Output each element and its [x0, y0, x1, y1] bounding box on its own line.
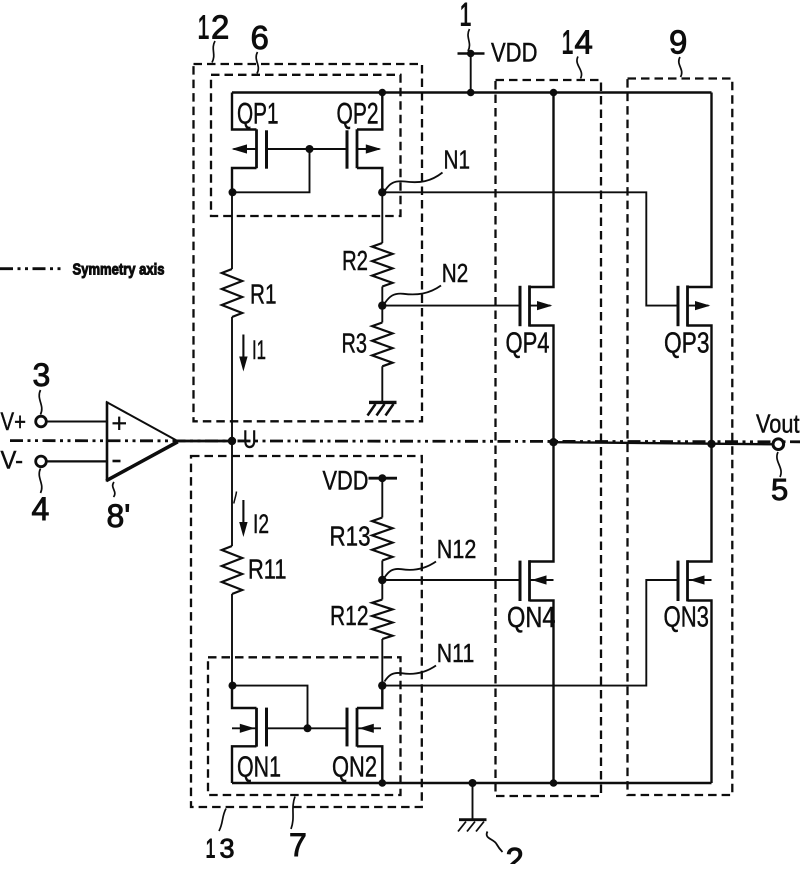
dashed block 9 outline: [628, 79, 733, 796]
svg-text:R2: R2: [342, 245, 368, 276]
svg-text:1: 1: [198, 9, 210, 46]
ground symbol (node 2): [458, 820, 487, 832]
stray scan tick: [234, 492, 237, 504]
label N12 leader: [385, 562, 437, 578]
svg-text:QN4: QN4: [507, 602, 556, 634]
svg-text:I1: I1: [252, 335, 266, 365]
wire V+ to op-amp: [47, 421, 107, 423]
VDD rail wire: [232, 91, 712, 94]
label N11: [437, 638, 475, 668]
svg-text:I2: I2: [253, 509, 269, 539]
svg-text:V+: V+: [1, 408, 27, 436]
dashed block 13 outline: [191, 456, 422, 807]
wire gate line QN1-QN2: [267, 727, 348, 729]
junction QP4/QN4 drains on axis: [549, 438, 557, 446]
wire output node to Vout: [554, 442, 778, 444]
label U: [243, 426, 257, 454]
transistor QN4 (NMOS): [507, 441, 556, 783]
svg-text:5: 5: [771, 472, 788, 507]
transistor QN2 (NMOS): [332, 686, 382, 784]
label 1: [460, 0, 472, 33]
label 3 leader: [39, 390, 42, 415]
svg-text:1: 1: [460, 0, 472, 33]
svg-text:8': 8': [107, 498, 131, 534]
label 4: [32, 491, 50, 527]
junction QN1 drain: [229, 682, 237, 690]
svg-text:3: 3: [33, 357, 51, 393]
wire R12 to N11: [381, 639, 383, 686]
label 6 leader: [256, 52, 258, 74]
label N1: [444, 144, 471, 174]
junction QN2 source on rail: [379, 779, 387, 787]
svg-text:VDD: VDD: [323, 465, 369, 495]
VDD label bottom: [323, 465, 369, 495]
svg-text:Symmetry axis: Symmetry axis: [73, 262, 165, 279]
resistor R1: [222, 269, 277, 317]
transistor QP2 (PMOS): [337, 93, 383, 193]
label 14: [562, 24, 593, 61]
label 7: [289, 827, 307, 863]
svg-text:V-: V-: [1, 446, 24, 474]
svg-text:9: 9: [669, 24, 687, 61]
wire N12 to R12: [381, 580, 383, 600]
svg-text:R1: R1: [250, 279, 277, 310]
node N2 junction: [378, 301, 386, 309]
label 8' leader: [113, 482, 115, 497]
node N1 junction: [378, 188, 386, 196]
svg-text:6: 6: [251, 19, 269, 56]
node N11 junction: [378, 681, 386, 689]
wire VDD to R13: [381, 478, 383, 517]
svg-text:QN3: QN3: [664, 602, 710, 634]
label 13: [206, 834, 235, 864]
label N11 leader: [385, 666, 437, 682]
junction ground tap on rail: [469, 779, 477, 787]
junction QP3/QN3 drains on axis: [707, 440, 715, 448]
svg-text:VDD: VDD: [491, 38, 538, 68]
VDD label top: [491, 38, 538, 68]
transistor QP1 (PMOS): [232, 93, 279, 193]
label Vout: [756, 409, 800, 439]
wire gate line QP1-QP2: [267, 148, 348, 150]
ground rail wire: [232, 782, 712, 785]
junction VDD on rail: [467, 89, 475, 97]
resistor R13: [330, 518, 393, 561]
label 9: [669, 24, 687, 61]
svg-text:N2: N2: [442, 258, 469, 288]
svg-text:Vout: Vout: [756, 409, 800, 439]
dashed block 6 outline (current mirror QP1/QP2): [211, 75, 401, 216]
junction QP1 drain: [229, 188, 237, 196]
label 8': [107, 498, 131, 534]
resistor R12: [330, 600, 393, 640]
wire R13 to N12: [381, 561, 383, 581]
svg-text:1: 1: [206, 834, 216, 864]
current arrow I2: [239, 500, 269, 539]
junction QP2 source on rail: [379, 89, 387, 97]
resistor R3: [342, 323, 393, 367]
VDD terminal bar (node 1): [458, 50, 485, 58]
output terminal Vout (circle): [773, 439, 784, 450]
op-amp U8': [106, 402, 178, 482]
svg-text:QP1: QP1: [237, 98, 279, 131]
wire QN1 drain to mirror gates: [232, 686, 308, 729]
junction QN4 source on bottom rail: [550, 779, 558, 787]
label 13 leader: [219, 809, 226, 832]
label N2: [442, 258, 469, 288]
wire VDD terminal to rail: [470, 54, 472, 93]
label 14 leader: [577, 57, 582, 79]
dashed block 14 outline: [496, 80, 602, 796]
svg-text:4: 4: [32, 491, 50, 527]
label V-: [1, 446, 24, 474]
label 2 leader: [487, 832, 503, 853]
svg-text:2: 2: [211, 9, 229, 46]
wire QP1 drain to mirror gates: [232, 149, 310, 192]
label 7 leader: [291, 797, 295, 830]
svg-text:N11: N11: [437, 638, 475, 668]
wire R11 to QN1 drain: [231, 594, 233, 686]
junction bottom mirror gate node: [304, 724, 312, 732]
svg-text:R3: R3: [342, 327, 368, 358]
svg-text:7: 7: [289, 827, 307, 863]
svg-text:N1: N1: [444, 144, 471, 174]
transistor QN3 (NMOS): [664, 441, 712, 783]
wire node U to R11: [231, 441, 233, 546]
wire R2 to N2: [381, 287, 383, 306]
svg-text:4: 4: [575, 24, 593, 61]
svg-text:2: 2: [506, 841, 524, 864]
svg-text:QP3: QP3: [664, 328, 710, 360]
input terminal V- (circle): [36, 456, 47, 467]
svg-text:N12: N12: [437, 534, 477, 564]
wire V- to op-amp: [47, 460, 107, 462]
svg-text:QP2: QP2: [337, 98, 379, 131]
label 5: [771, 472, 788, 507]
label 3: [33, 357, 51, 393]
svg-text:QP4: QP4: [506, 328, 550, 360]
wire op-amp output to node U: [178, 440, 233, 443]
wire R1 to node U: [231, 317, 233, 441]
resistor R2: [342, 243, 393, 287]
wire N1 to R2: [381, 192, 383, 243]
wire N2 to QP4 gate: [382, 305, 520, 307]
wire rail to ground symbol: [472, 783, 474, 820]
svg-text:R11: R11: [248, 554, 287, 585]
junction mirror gate node: [306, 145, 314, 153]
node U junction: [228, 437, 236, 445]
symmetry axis line: [10, 441, 800, 442]
label N12: [437, 534, 477, 564]
svg-text:QN1: QN1: [237, 752, 281, 784]
dashed block 12 outline: [194, 64, 423, 421]
transistor QP4 (PMOS): [506, 93, 554, 442]
label N2 leader: [385, 286, 441, 303]
VDD terminal bar (bottom): [369, 474, 398, 482]
svg-text:QN2: QN2: [332, 752, 377, 784]
wire N12 to QN4 gate: [382, 579, 520, 581]
label 2: [506, 841, 524, 869]
label 1 leader: [468, 29, 470, 51]
transistor QN1 (NMOS): [232, 686, 281, 784]
label 6: [251, 19, 269, 56]
input terminal V+ (circle): [36, 416, 47, 427]
symmetry axis legend line: [0, 267, 64, 270]
wire N2 to R3: [381, 306, 383, 323]
svg-text:1: 1: [562, 24, 574, 61]
resistor R11: [222, 546, 287, 594]
svg-text:R12: R12: [330, 600, 369, 631]
dashed block 7 outline (current mirror QN1/QN2): [208, 657, 401, 795]
current arrow I1: [239, 335, 266, 372]
label 9 leader: [679, 57, 682, 77]
label V+: [1, 408, 27, 436]
wire N11 to QN3 gate: [382, 580, 678, 686]
node N12 junction: [378, 576, 386, 584]
label N1 leader: [385, 173, 443, 191]
symmetry axis legend text: [73, 262, 165, 279]
transistor QP3 (PMOS): [664, 93, 712, 442]
wire N1 to QP3 gate: [382, 192, 678, 305]
svg-text:3: 3: [220, 834, 235, 864]
ground symbol (R3): [368, 402, 397, 415]
svg-text:U: U: [243, 426, 257, 454]
label 4 leader: [39, 469, 42, 494]
svg-text:R13: R13: [330, 521, 371, 552]
label 12: [198, 9, 230, 46]
label 5 leader: [777, 452, 781, 477]
wire R3 to ground: [381, 366, 383, 402]
junction QP4 source on rail: [550, 89, 558, 97]
label 12 leader: [212, 41, 215, 63]
wire QP1 drain to R1: [231, 192, 233, 269]
